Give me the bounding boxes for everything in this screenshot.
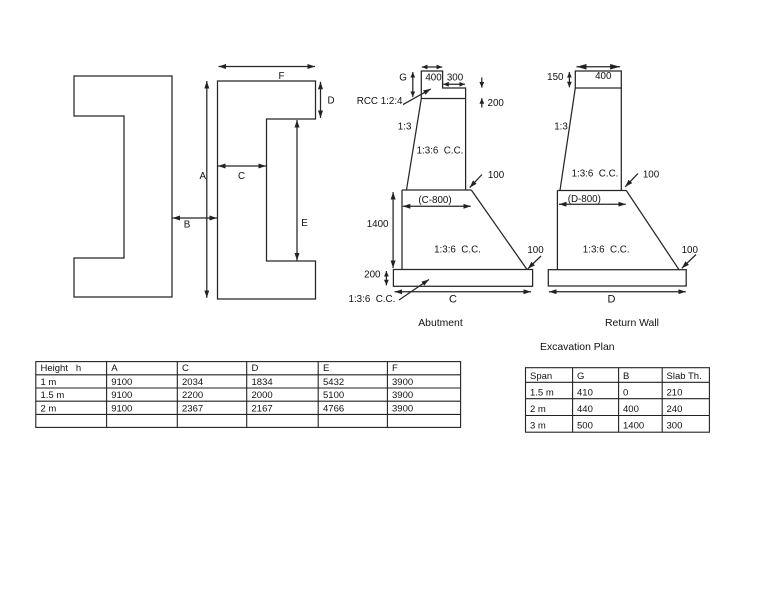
svg-text:G: G xyxy=(399,72,407,83)
svg-text:3900: 3900 xyxy=(392,377,413,388)
return wall left slope xyxy=(560,88,575,190)
svg-text:2167: 2167 xyxy=(252,403,273,414)
svg-text:G: G xyxy=(577,371,584,382)
return wall lower block diagonal xyxy=(626,191,679,270)
left bracket shape xyxy=(74,76,172,297)
dimension G arrow xyxy=(412,72,414,97)
svg-text:400: 400 xyxy=(595,71,612,82)
dimension 200 up arrow (bearing) xyxy=(481,98,483,107)
svg-text:2 m: 2 m xyxy=(530,404,546,415)
svg-text:D: D xyxy=(252,363,259,374)
dimension 150 arrow xyxy=(568,72,570,87)
svg-text:100: 100 xyxy=(643,170,660,181)
dimension (C-800) arrow xyxy=(403,205,471,207)
svg-text:1:3:6 C.C.: 1:3:6 C.C. xyxy=(434,245,481,256)
dimension E arrow xyxy=(296,120,298,261)
abutment wall outline xyxy=(407,71,466,190)
svg-text:(D-800): (D-800) xyxy=(568,194,601,205)
svg-text:D: D xyxy=(327,96,334,107)
dimension A arrow xyxy=(206,81,208,298)
dimension B arrow xyxy=(173,217,218,219)
svg-text:E: E xyxy=(323,363,329,374)
svg-text:100: 100 xyxy=(527,245,544,256)
right table grid xyxy=(526,368,710,433)
svg-text:9100: 9100 xyxy=(111,403,132,414)
svg-text:100: 100 xyxy=(682,245,699,256)
leader arrow 100 (return footing offset) xyxy=(682,255,696,269)
svg-text:3 m: 3 m xyxy=(530,421,546,432)
leader arrow 100 (footing offset) xyxy=(528,256,541,269)
svg-text:2200: 2200 xyxy=(182,390,203,401)
leader arrow RCC 1:2:4 xyxy=(403,89,431,105)
svg-text:B: B xyxy=(623,371,629,382)
return wall lower block left edge xyxy=(556,191,558,270)
dimension 400 arrow (abutment top) xyxy=(422,66,442,68)
dimension F arrow xyxy=(219,66,316,68)
svg-text:F: F xyxy=(279,71,285,82)
svg-text:2367: 2367 xyxy=(182,403,203,414)
svg-text:E: E xyxy=(301,218,308,229)
dimension 200 arrow (footing depth) xyxy=(385,271,387,285)
dimension (D-800) arrow xyxy=(559,203,626,205)
return wall right edge xyxy=(620,88,622,190)
svg-text:1400: 1400 xyxy=(623,421,644,432)
dimension 300 arrow (bridge seat) xyxy=(443,83,465,85)
abutment footing xyxy=(393,270,532,287)
svg-text:200: 200 xyxy=(364,269,381,280)
right bracket shape xyxy=(218,81,316,299)
abutment lower block top edge xyxy=(402,189,471,191)
svg-text:1400: 1400 xyxy=(367,219,389,230)
abutment lower block diagonal back xyxy=(471,190,527,270)
svg-text:9100: 9100 xyxy=(111,377,132,388)
svg-text:C: C xyxy=(238,171,245,182)
svg-text:Slab Th.: Slab Th. xyxy=(667,371,702,382)
return wall lower block top edge xyxy=(557,190,626,192)
svg-text:1:3: 1:3 xyxy=(554,122,568,133)
svg-text:5432: 5432 xyxy=(323,377,344,388)
svg-text:2000: 2000 xyxy=(252,390,273,401)
leader arrow 100 (stem offset) xyxy=(470,175,482,188)
svg-text:1:3:6 C.C.: 1:3:6 C.C. xyxy=(572,169,619,180)
dimension 400 arrow (return wall cap) xyxy=(577,66,621,68)
svg-text:300: 300 xyxy=(447,72,464,83)
svg-text:1.5 m: 1.5 m xyxy=(530,387,554,398)
svg-text:1 m: 1 m xyxy=(41,377,57,388)
svg-text:150: 150 xyxy=(547,72,564,83)
return wall footing xyxy=(548,270,686,286)
svg-text:C: C xyxy=(182,363,189,374)
svg-text:1:3: 1:3 xyxy=(398,121,412,132)
svg-text:2034: 2034 xyxy=(182,377,203,388)
svg-text:210: 210 xyxy=(667,387,683,398)
svg-text:Abutment: Abutment xyxy=(418,318,463,329)
svg-text:0: 0 xyxy=(623,387,628,398)
svg-text:(C-800): (C-800) xyxy=(418,195,451,206)
svg-text:Span: Span xyxy=(530,371,552,382)
dimension C arrow (abutment footing width) xyxy=(395,291,531,293)
svg-text:1834: 1834 xyxy=(252,377,273,388)
svg-text:9100: 9100 xyxy=(111,390,132,401)
svg-text:240: 240 xyxy=(667,404,683,415)
svg-text:1.5 m: 1.5 m xyxy=(41,390,65,401)
svg-text:A: A xyxy=(200,171,207,182)
leader arrow 100 (wall base offset) xyxy=(625,174,638,187)
dimension 1400 arrow xyxy=(392,192,394,268)
svg-text:4766: 4766 xyxy=(323,403,344,414)
svg-text:3900: 3900 xyxy=(392,390,413,401)
svg-text:2 m: 2 m xyxy=(41,403,57,414)
svg-text:300: 300 xyxy=(667,421,683,432)
svg-text:200: 200 xyxy=(488,98,505,109)
svg-text:400: 400 xyxy=(623,404,639,415)
abutment RCC cap line xyxy=(421,98,465,100)
svg-text:C: C xyxy=(449,293,457,305)
svg-text:440: 440 xyxy=(577,404,593,415)
svg-text:1:3:6 C.C.: 1:3:6 C.C. xyxy=(349,294,396,305)
leader arrow 1:3:6 C.C. footing xyxy=(399,280,429,301)
svg-text:A: A xyxy=(111,363,118,374)
dimension 200 down arrow (bearing) xyxy=(481,78,483,88)
svg-text:D: D xyxy=(608,293,616,305)
svg-text:400: 400 xyxy=(425,72,442,83)
svg-text:F: F xyxy=(392,363,398,374)
svg-text:Excavation Plan: Excavation Plan xyxy=(540,342,615,353)
svg-text:410: 410 xyxy=(577,387,593,398)
dimension C arrow (bracket) xyxy=(218,165,266,167)
svg-text:3900: 3900 xyxy=(392,403,413,414)
dimension D arrow (return footing width) xyxy=(549,291,686,293)
abutment lower block left edge xyxy=(401,190,403,270)
left table grid xyxy=(36,362,461,428)
svg-text:Return Wall: Return Wall xyxy=(605,318,659,329)
svg-text:RCC 1:2:4: RCC 1:2:4 xyxy=(357,96,403,107)
svg-text:B: B xyxy=(184,220,191,231)
svg-text:500: 500 xyxy=(577,421,593,432)
dimension D arrow xyxy=(320,82,322,118)
svg-text:Height h: Height h xyxy=(41,363,82,374)
svg-text:100: 100 xyxy=(488,170,505,181)
return wall cap xyxy=(575,71,621,88)
svg-text:1:3:6 C.C.: 1:3:6 C.C. xyxy=(583,245,630,256)
svg-text:5100: 5100 xyxy=(323,390,344,401)
svg-text:1:3:6 C.C.: 1:3:6 C.C. xyxy=(417,146,464,157)
